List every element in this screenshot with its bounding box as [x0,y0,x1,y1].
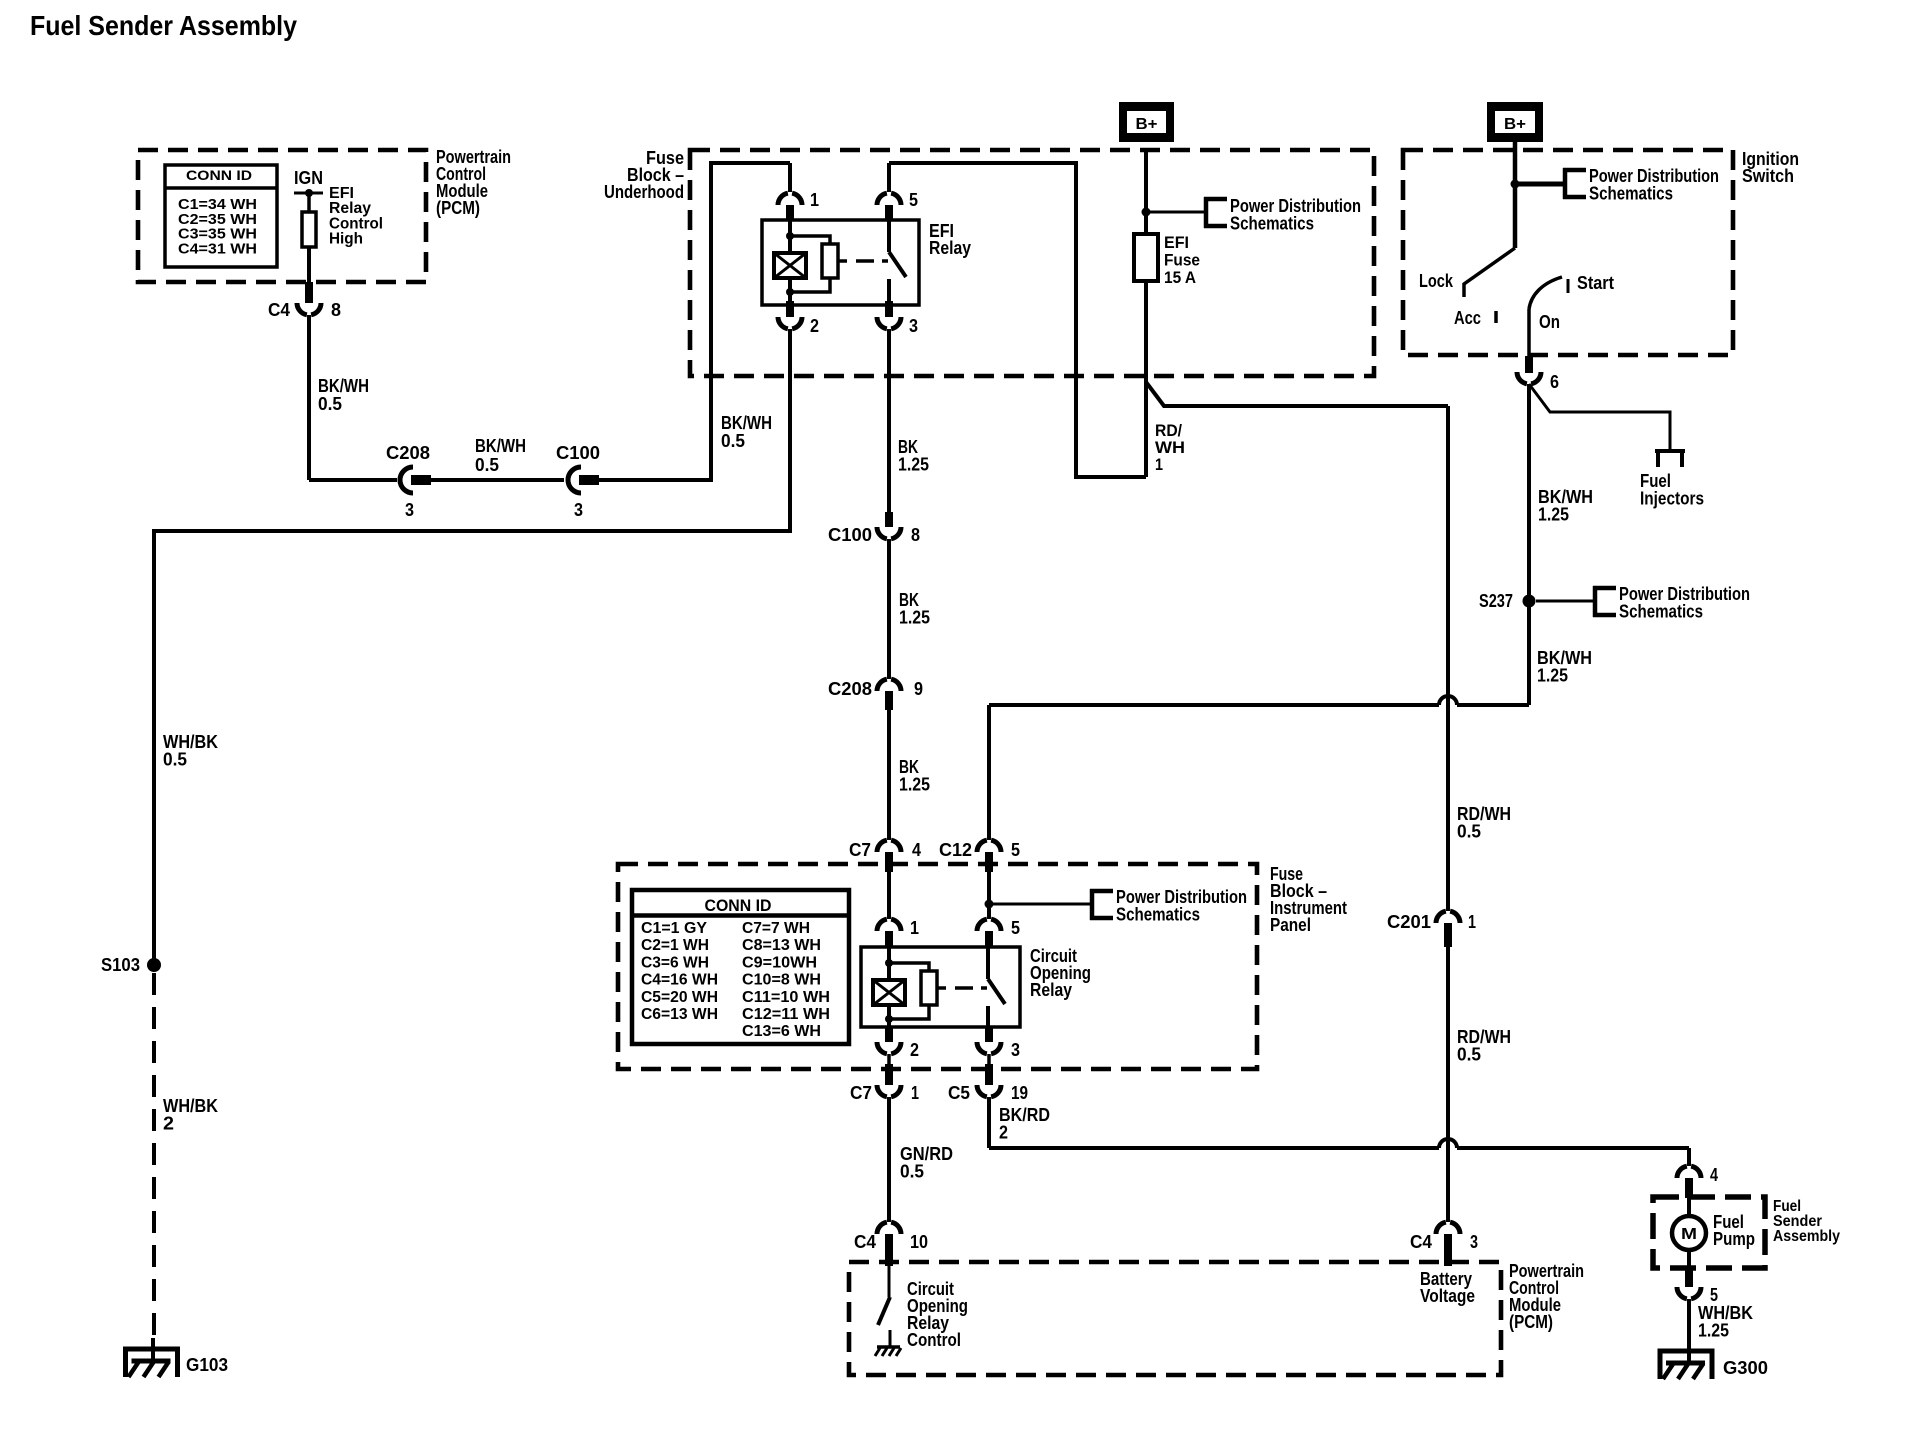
svg-text:1: 1 [1468,912,1476,932]
svg-text:0.5: 0.5 [1457,822,1481,842]
svg-text:C7: C7 [849,840,871,860]
splice S237 dot [1523,595,1536,608]
svg-text:0.5: 0.5 [318,394,342,414]
EFI relay pin 2 stub [786,301,794,317]
svg-text:C7: C7 [850,1083,872,1103]
svg-text:BK/WH: BK/WH [318,376,369,396]
wire S237 to pointer [1536,600,1595,603]
wire junction to schematic pointer [1146,211,1206,214]
svg-text:0.5: 0.5 [163,750,187,770]
fuel pump motor circle [1672,1216,1706,1250]
svg-text:C201: C201 [1387,912,1431,932]
svg-text:Schematics: Schematics [1230,214,1314,234]
svg-text:Relay: Relay [1030,980,1072,1000]
svg-text:Relay: Relay [929,238,971,258]
svg-text:G300: G300 [1723,1358,1768,1378]
svg-text:C4: C4 [268,300,290,320]
svg-text:0.5: 0.5 [475,455,499,475]
wire C7-4 into relay pin 1 [887,872,891,919]
connector C7 pin 4 stub [885,852,893,872]
B+ battery feed symbol (ignition) [1487,102,1543,142]
wire branch to fuel injectors [1529,384,1670,449]
wire EFI fuse down [1144,281,1148,477]
ignition blade curve to Start [1529,277,1562,309]
Fuel Sender Assembly box [1653,1197,1765,1268]
wire BK/WH horizontal with hop over RD/WH [989,703,1529,707]
svg-text:1: 1 [910,918,919,938]
svg-text:C12=11 WH: C12=11 WH [742,1006,830,1023]
svg-text:C10=8 WH: C10=8 WH [742,972,821,989]
svg-text:1.25: 1.25 [1538,505,1569,525]
wire BK 1.25 C208 to C7 [887,710,891,840]
svg-text:1: 1 [911,1083,919,1103]
svg-text:Lock: Lock [1419,271,1454,291]
connector C7 pin 1 stub [885,1064,893,1085]
PCM internal ground symbol [877,1345,900,1349]
svg-text:5: 5 [1011,840,1020,860]
fuel pump connector 5 stub [1685,1268,1693,1287]
svg-text:C4: C4 [1410,1232,1432,1252]
ignition rotor arm to Lock [1464,248,1515,297]
svg-text:C4: C4 [854,1232,876,1252]
COR pin 2 arc [877,1042,901,1054]
svg-text:(PCM): (PCM) [1509,1312,1553,1332]
wire to pointer (ignition) [1515,182,1564,187]
connector C208 stub [411,475,431,485]
wire BK/WH 1.25 ignition down [1527,384,1531,705]
EFI relay pin 3 arc [877,317,901,329]
resistor EFI Relay Control High (in PCM) [302,212,316,247]
COR pin 1 stub [885,931,893,947]
svg-text:15 A: 15 A [1164,268,1196,287]
svg-text:Control: Control [907,1330,961,1350]
B+ battery feed symbol (fuse block) [1119,102,1174,142]
fuse EFI Fuse 15A [1134,234,1158,281]
node IGN junction dot [305,189,313,197]
connector C5 pin 19 arc [977,1085,1001,1097]
svg-text:BK/WH: BK/WH [475,436,526,456]
connector C208 pin 9 arc [877,679,901,691]
Start contact tick [1567,279,1570,293]
svg-text:0.5: 0.5 [721,431,745,451]
EFI relay box [762,220,919,305]
svg-text:1.25: 1.25 [1537,666,1568,686]
svg-text:CONN ID: CONN ID [186,167,252,183]
Fuse Block - Instrument Panel box [618,864,1257,1069]
svg-text:Injectors: Injectors [1640,489,1704,509]
svg-text:B+: B+ [1504,116,1526,133]
svg-text:Panel: Panel [1270,915,1311,935]
svg-text:Schematics: Schematics [1619,602,1703,622]
svg-text:3: 3 [574,500,583,520]
connector C208 pin 9 stub [885,691,893,710]
svg-text:C2=35 WH: C2=35 WH [178,212,257,228]
svg-text:C7=7 WH: C7=7 WH [742,920,810,937]
wire GN/RD C7-1 down to C4-10 [887,1097,891,1222]
EFI relay pin 5 arc [877,193,901,205]
connector C100 stub [579,475,599,485]
svg-text:2: 2 [999,1123,1008,1143]
COR pin 2 stub [885,1026,893,1042]
wire B+ into ignition switch [1513,142,1518,248]
EFI relay pin 1 wire [788,163,792,192]
svg-text:5: 5 [1011,918,1020,938]
wire hop arc (no connection) [1439,696,1457,705]
wire IGN to resistor [307,193,311,212]
svg-text:On: On [1539,312,1560,332]
connector C4 pin 3 stub [1444,1234,1452,1266]
svg-text:1.25: 1.25 [898,455,929,475]
svg-text:Schematics: Schematics [1116,905,1200,925]
svg-text:C9=10WH: C9=10WH [742,954,817,971]
COR switch [986,948,990,979]
svg-text:Assembly: Assembly [1773,1228,1840,1245]
svg-text:8: 8 [331,300,341,320]
EFI relay pin 5 stub [885,205,893,221]
wire BK/WH 0.5 from C4-8 down [307,315,311,480]
svg-text:C5: C5 [948,1083,970,1103]
svg-text:C11=10 WH: C11=10 WH [742,989,830,1006]
COR pin 3 arc [977,1042,1001,1054]
svg-text:1.25: 1.25 [1698,1321,1729,1341]
connector C12 pin 5 stub [985,852,993,872]
svg-text:C13=6 WH: C13=6 WH [742,1023,821,1040]
EFI relay pin 3 stub [885,301,893,317]
wire BK/RD 2 to fuel pump with hop [989,1097,1689,1166]
wire conn4 to motor [1687,1194,1691,1216]
wire horizontal C4-8 to C208 [309,478,397,482]
PCM circuit opening relay control switch [888,1266,891,1297]
EFI relay coil and suppressor [788,221,792,253]
fuel pump connector 5 arc [1677,1287,1701,1299]
svg-text:Switch: Switch [1742,166,1794,186]
connector C201 pin 1 stub [1444,923,1452,947]
junction dot ignition feed [1511,180,1520,189]
svg-text:4: 4 [912,840,921,860]
Acc contact tick [1494,311,1498,323]
wire WH/BK 2 dashed to ground [152,973,156,1340]
pointer Power Distribution Schematics (instrument panel) [1090,889,1113,920]
svg-text:3: 3 [1470,1232,1478,1252]
COR pin 5 arc [977,919,1001,931]
fuel pump connector 4 arc [1677,1166,1701,1178]
svg-text:C1=1 GY: C1=1 GY [641,920,707,937]
wire RD/WH diagonal takeoff [1146,382,1448,406]
wire On position down [1527,309,1531,356]
connector C4 pin 10 stub [885,1234,893,1266]
wire BK/WH pin 2 down and left [154,329,790,965]
svg-text:BK/WH: BK/WH [721,413,772,433]
svg-text:C208: C208 [828,679,872,699]
svg-text:C12: C12 [939,840,972,860]
svg-text:C3=35 WH: C3=35 WH [178,227,257,243]
wire COR pin2 to C7-1 [887,1054,891,1065]
Fuse Block - Underhood box [690,150,1374,376]
wire C201 to C4-3 [1446,947,1450,1222]
svg-text:5: 5 [909,190,918,210]
svg-text:C4=31 WH: C4=31 WH [178,241,257,257]
svg-text:Schematics: Schematics [1589,184,1673,204]
svg-text:3: 3 [1011,1040,1020,1060]
EFI relay pin 5 wire [887,163,891,192]
svg-text:S103: S103 [101,955,140,975]
wire C100 to fuse block riser [599,163,790,480]
svg-text:5: 5 [1710,1285,1718,1305]
connector C4 pin 3 arc [1436,1222,1460,1234]
EFI relay pin 1 arc [778,193,802,205]
connector C100 (inline) arc [568,467,581,493]
svg-text:9: 9 [914,679,923,699]
svg-text:(PCM): (PCM) [436,198,480,218]
wire pin5 top bus to fuse output [889,163,1146,477]
svg-text:B+: B+ [1136,116,1158,133]
wire BK/WH 0.5 C208 to C100 [431,478,564,482]
wire junction to pointer (instrument panel) [989,903,1092,906]
wire BK 1.25 pin3 down [887,329,891,512]
connector C4 pin 8 arc [297,303,321,315]
ground G103 [123,1349,180,1377]
fuel injectors symbol [1655,451,1685,467]
svg-text:C100: C100 [828,525,872,545]
COR pin 5 stub [985,931,993,947]
wire resistor to PCM edge [307,247,311,283]
COR coil and suppressor [887,948,891,980]
svg-text:C208: C208 [386,443,430,463]
wire WH/BK 1.25 to G300 [1687,1299,1691,1362]
svg-text:C3=6 WH: C3=6 WH [641,954,709,971]
svg-text:M: M [1681,1226,1697,1243]
svg-text:C4=16 WH: C4=16 WH [641,972,718,989]
svg-text:1: 1 [810,190,819,210]
svg-text:High: High [329,231,363,248]
connector C100 pin 8 stub [885,512,893,527]
COR pin 3 stub [985,1026,993,1042]
svg-text:1.25: 1.25 [899,608,930,628]
fuel pump connector 4 stub [1685,1178,1693,1198]
svg-text:4: 4 [1710,1165,1718,1185]
pointer Power Distribution Schematics (ignition) [1563,168,1586,199]
PCM module box (Powertrain Control Module, top-left) [138,150,426,282]
svg-text:1: 1 [1155,455,1163,474]
svg-text:C6=13 WH: C6=13 WH [641,1006,718,1023]
svg-text:10: 10 [910,1232,928,1252]
svg-text:IGN: IGN [294,168,323,188]
svg-text:C1=34 WH: C1=34 WH [178,197,257,213]
CONN ID table (instrument panel) [632,890,849,1044]
wire hop arc at RD/WH crossing [1439,1139,1457,1148]
svg-text:S237: S237 [1479,591,1513,611]
svg-text:0.5: 0.5 [900,1162,924,1182]
connector C201 pin 1 arc [1436,911,1460,923]
wire RD/WH down right side [1446,406,1450,911]
pointer Power Distribution Schematics (S237) [1593,586,1616,617]
svg-text:Acc: Acc [1454,308,1481,328]
svg-text:1.25: 1.25 [899,775,930,795]
svg-text:0.5: 0.5 [1457,1045,1481,1065]
svg-text:C2=1 WH: C2=1 WH [641,937,709,954]
wire C12 riser [987,705,991,840]
connector C12 pin 5 arc [977,840,1001,852]
svg-text:2: 2 [910,1040,919,1060]
EFI relay pin 2 arc [778,317,802,329]
svg-text:Fuel Sender Assembly: Fuel Sender Assembly [30,10,297,41]
svg-text:8: 8 [911,525,920,545]
svg-text:Pump: Pump [1713,1229,1755,1249]
svg-text:C5=20 WH: C5=20 WH [641,989,718,1006]
svg-text:Underhood: Underhood [604,182,684,202]
PCM box (bottom) [849,1262,1501,1375]
connector C100 pin 8 arc [877,527,901,539]
svg-text:C8=13 WH: C8=13 WH [742,937,821,954]
splice S103 dot [147,958,161,972]
Circuit Opening Relay box [861,947,1020,1027]
svg-text:19: 19 [1011,1083,1028,1103]
connector C4 pin 10 arc [877,1222,901,1234]
wire BK 1.25 C100 to C208 [887,539,891,679]
wire COR pin3 to C5-19 [987,1054,991,1065]
pointer Power Distribution Schematics (fuse block) [1204,197,1227,228]
ignition connector 6 arc [1517,372,1541,384]
svg-text:2: 2 [810,316,819,336]
connector C7 pin 4 arc [877,840,901,852]
svg-text:2: 2 [163,1114,174,1134]
svg-text:G103: G103 [186,1355,228,1375]
wire motor to conn5 [1687,1250,1691,1268]
svg-text:C100: C100 [556,443,600,463]
svg-text:3: 3 [405,500,414,520]
svg-text:Voltage: Voltage [1420,1286,1475,1306]
node IGN tap line [294,192,323,195]
ground G300 [1658,1351,1715,1379]
junction dot relay pin 5 feed [985,900,994,909]
svg-text:Fuse: Fuse [1164,251,1200,270]
connector C208 (inline) arc [400,467,413,493]
svg-text:EFI: EFI [1164,233,1189,252]
wire into G103 [151,1338,155,1360]
COR pin 1 arc [877,919,901,931]
connector C4 pin 8 stub [305,282,313,303]
svg-text:Start: Start [1577,273,1614,293]
connector C5 pin 19 stub [985,1064,993,1085]
svg-text:6: 6 [1550,372,1559,392]
ignition connector 6 stub [1525,356,1533,373]
wire C12-5 into relay pin 5 [987,872,991,919]
svg-text:CONN ID: CONN ID [705,897,772,915]
svg-text:3: 3 [909,316,918,336]
wire B+ down to EFI fuse [1144,149,1148,234]
EFI relay pin 1 stub [786,205,794,221]
CONN ID table (PCM) [165,165,277,267]
EFI relay switch [887,221,891,252]
junction dot above EFI fuse [1142,208,1151,217]
Ignition Switch box [1403,150,1733,355]
connector C7 pin 1 arc [877,1085,901,1097]
